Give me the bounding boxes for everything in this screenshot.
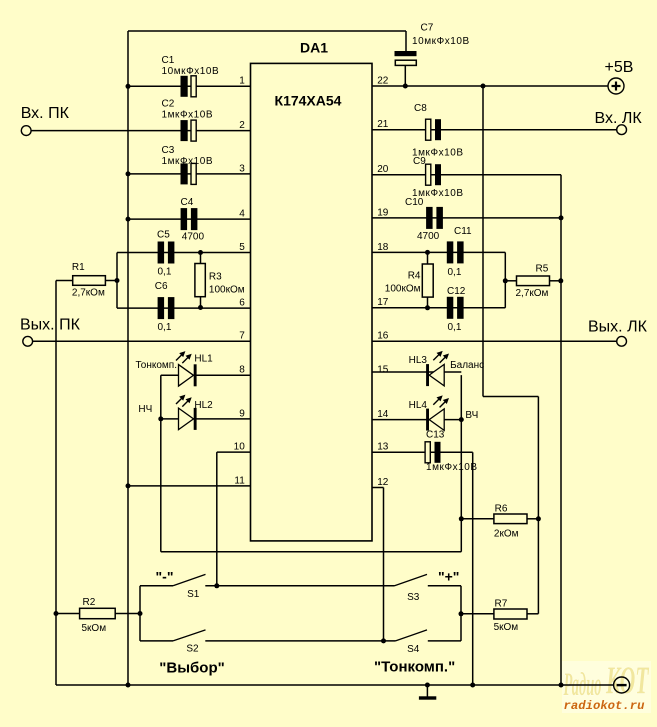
svg-text:20: 20 (377, 164, 389, 175)
svg-text:HL1: HL1 (194, 354, 213, 365)
svg-text:R3: R3 (209, 271, 222, 282)
svg-text:R7: R7 (495, 599, 508, 610)
svg-text:S3: S3 (407, 592, 420, 603)
svg-text:C3: C3 (162, 145, 175, 156)
svg-text:DA1: DA1 (300, 39, 328, 55)
svg-text:R2: R2 (83, 597, 96, 608)
svg-text:"-": "-" (156, 568, 174, 584)
svg-text:S4: S4 (407, 644, 420, 655)
svg-text:5кОм: 5кОм (82, 623, 107, 634)
svg-text:C10: C10 (405, 197, 424, 208)
svg-text:16: 16 (377, 331, 389, 342)
svg-text:C12: C12 (447, 286, 466, 297)
svg-text:radiokot.ru: radiokot.ru (564, 700, 645, 713)
svg-text:Баланс: Баланс (450, 360, 484, 371)
svg-text:10мкФх10В: 10мкФх10В (412, 36, 470, 47)
svg-text:"Тонкомп.": "Тонкомп." (374, 658, 455, 675)
svg-text:C4: C4 (181, 197, 194, 208)
svg-text:Вх. ПК: Вх. ПК (21, 105, 70, 122)
svg-text:НЧ: НЧ (138, 404, 152, 415)
svg-text:0,1: 0,1 (158, 322, 172, 333)
svg-text:"+": "+" (438, 569, 459, 585)
svg-text:1мкФх10В: 1мкФх10В (426, 462, 478, 473)
svg-text:C5: C5 (157, 229, 170, 240)
svg-text:18: 18 (377, 242, 389, 253)
svg-text:1: 1 (239, 76, 245, 87)
svg-text:5кОм: 5кОм (494, 622, 519, 633)
svg-text:10: 10 (234, 442, 246, 453)
svg-text:C1: C1 (162, 55, 175, 66)
svg-text:3: 3 (239, 163, 245, 174)
svg-text:R4: R4 (408, 271, 421, 282)
svg-text:2кОм: 2кОм (494, 529, 519, 540)
svg-text:HL4: HL4 (409, 400, 428, 411)
svg-text:Тонкомп.: Тонкомп. (135, 360, 177, 371)
svg-text:К174ХА54: К174ХА54 (275, 92, 342, 108)
svg-text:6: 6 (239, 298, 245, 309)
svg-text:C7: C7 (421, 23, 434, 34)
svg-text:4: 4 (239, 209, 245, 220)
svg-text:C11: C11 (454, 226, 472, 237)
svg-text:5: 5 (239, 242, 245, 253)
svg-text:R6: R6 (495, 504, 508, 515)
svg-text:HL2: HL2 (194, 400, 213, 411)
svg-text:100кОм: 100кОм (385, 284, 421, 295)
svg-text:R5: R5 (536, 264, 549, 275)
svg-text:Вх. ЛК: Вх. ЛК (595, 110, 643, 127)
svg-text:22: 22 (377, 75, 389, 86)
svg-text:9: 9 (239, 408, 245, 419)
svg-text:13: 13 (377, 442, 389, 453)
svg-text:7: 7 (239, 331, 245, 342)
svg-text:12: 12 (377, 477, 389, 488)
svg-text:17: 17 (377, 297, 389, 308)
svg-text:1мкФх10В: 1мкФх10В (162, 156, 214, 167)
svg-text:+5В: +5В (605, 59, 634, 76)
svg-text:"Выбор": "Выбор" (159, 659, 224, 676)
svg-text:C13: C13 (426, 430, 445, 441)
svg-text:Вых. ПК: Вых. ПК (20, 317, 81, 334)
svg-text:HL3: HL3 (409, 355, 428, 366)
svg-text:100кОм: 100кОм (209, 285, 245, 296)
svg-text:C8: C8 (414, 103, 427, 114)
svg-text:21: 21 (377, 119, 389, 130)
svg-text:10мкФх10В: 10мкФх10В (162, 66, 220, 77)
svg-text:14: 14 (377, 409, 389, 420)
svg-text:ВЧ: ВЧ (465, 410, 478, 421)
svg-text:8: 8 (239, 365, 245, 376)
svg-text:Вых. ЛК: Вых. ЛК (588, 319, 648, 336)
svg-text:0,1: 0,1 (448, 267, 462, 278)
svg-text:C6: C6 (155, 281, 168, 292)
svg-text:C2: C2 (162, 98, 175, 109)
svg-text:R1: R1 (72, 262, 85, 273)
svg-text:0,1: 0,1 (448, 322, 462, 333)
svg-text:2,7кОм: 2,7кОм (516, 288, 549, 299)
svg-text:C9: C9 (413, 156, 426, 167)
svg-text:4700: 4700 (417, 231, 440, 242)
svg-text:19: 19 (377, 207, 389, 218)
svg-text:11: 11 (234, 475, 245, 486)
svg-text:S1: S1 (187, 589, 200, 600)
svg-text:15: 15 (377, 365, 389, 376)
svg-text:4700: 4700 (182, 232, 205, 243)
svg-text:1мкФх10В: 1мкФх10В (162, 110, 214, 121)
svg-text:2,7кОм: 2,7кОм (72, 287, 105, 298)
svg-text:0,1: 0,1 (158, 267, 172, 278)
svg-text:2: 2 (239, 120, 245, 131)
svg-text:S2: S2 (186, 644, 199, 655)
